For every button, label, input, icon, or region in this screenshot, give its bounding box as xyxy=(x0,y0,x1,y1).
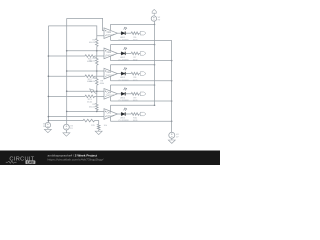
resistor R13 46.4k (input) xyxy=(48,95,94,98)
LED LED5 LTL-2R3KRK xyxy=(118,108,129,122)
svg-text:OA5: OA5 xyxy=(107,112,112,115)
output flag OUT4 xyxy=(140,92,146,96)
wire op-amp output xyxy=(118,113,122,115)
wire ladder segment xyxy=(96,46,98,50)
op-amp OA3 TL072CP xyxy=(104,65,118,81)
wire ladder segment xyxy=(96,65,98,71)
resistor R3 464.1k (ladder) xyxy=(96,57,99,65)
svg-text:LTL-2R3KRK: LTL-2R3KRK xyxy=(118,60,129,62)
svg-text:464k: 464k xyxy=(100,83,104,85)
svg-text:OA4: OA4 xyxy=(107,91,112,94)
svg-text:10k: 10k xyxy=(104,125,107,127)
wire stage2 V+ supply xyxy=(111,44,155,46)
wire stage2 V- to ground rail xyxy=(111,60,172,62)
svg-text:OA2: OA2 xyxy=(107,51,112,54)
svg-text:100Ω: 100Ω xyxy=(133,39,138,41)
wire xyxy=(139,32,140,34)
junction bus A / stage5 xyxy=(48,116,50,118)
voltage source V2 9V xyxy=(151,16,161,22)
svg-text:464.1k: 464.1k xyxy=(89,107,96,109)
resistor R4 464.1k (ladder) xyxy=(96,77,99,85)
resistor R15 10k (ladder termination) xyxy=(97,124,100,130)
wire op-amp output xyxy=(118,73,122,75)
wire xyxy=(65,124,67,133)
LED LED2 LTL-2R3KRK xyxy=(118,47,129,61)
wire ladder segment xyxy=(96,85,98,91)
output flag OUT5 xyxy=(140,112,146,116)
svg-text:LTL-2R3KRK: LTL-2R3KRK xyxy=(118,100,129,102)
wire stage1 upper input from bus B xyxy=(67,18,104,30)
svg-text:LTL-2R3KRK: LTL-2R3KRK xyxy=(118,39,129,41)
wire xyxy=(95,55,105,57)
svg-text:464.1k: 464.1k xyxy=(89,42,96,44)
svg-text:LAB: LAB xyxy=(27,160,34,164)
wire rail A (signal bus left) xyxy=(47,26,49,123)
wire xyxy=(126,113,132,115)
junction bus B / stage2 xyxy=(66,50,68,52)
junction V+ rail stage1 xyxy=(154,24,156,26)
voltage source V1 (left) xyxy=(43,122,51,128)
junction gnd rail stage2 xyxy=(171,60,173,62)
LED LED3 LTL-2R3KRK xyxy=(118,68,129,82)
wire ladder segment xyxy=(96,91,98,103)
wire stage3 upper input xyxy=(67,70,104,72)
junction ladder node 3 xyxy=(96,70,98,72)
resistor R8 100 ohm xyxy=(131,72,139,82)
junction gnd rail stage5 xyxy=(171,120,173,122)
svg-text:100Ω: 100Ω xyxy=(133,60,138,62)
wire termination row with resistor xyxy=(48,119,98,124)
svg-text:OA3: OA3 xyxy=(107,71,112,74)
wire ladder segment xyxy=(96,71,98,77)
svg-text:LTL-2R3KRK: LTL-2R3KRK xyxy=(118,80,129,82)
wire xyxy=(126,93,132,95)
junction V+ rail stage4 xyxy=(154,84,156,86)
output flag OUT2 xyxy=(140,52,146,56)
wire xyxy=(126,52,132,54)
junction V+ rail stage5 xyxy=(154,104,156,106)
junction bus B / stage3 xyxy=(66,70,68,72)
resistor R9 100 ohm xyxy=(131,93,139,103)
wire stage5 V- to ground rail xyxy=(111,120,172,122)
wire xyxy=(139,73,140,75)
junction bus A / stage3 xyxy=(48,75,50,77)
svg-text:OA1: OA1 xyxy=(107,31,112,34)
junction V+ rail stage3 xyxy=(154,64,156,66)
wire stage4 upper input xyxy=(67,90,104,92)
wire stage5 upper input xyxy=(67,110,104,112)
wire stage4 V+ supply xyxy=(111,84,155,86)
junction bus B / stage4 xyxy=(66,90,68,92)
resistor R2 464.1k (ladder) xyxy=(96,39,99,47)
junction ladder node 2 xyxy=(96,50,98,52)
node flag 9V (top) xyxy=(152,9,156,16)
wire op-amp output xyxy=(118,93,122,95)
resistor R7 100 ohm xyxy=(131,52,139,62)
wire xyxy=(95,75,105,77)
wire ground rail right xyxy=(171,40,173,132)
op-amp OA2 TL072CP xyxy=(104,45,118,61)
wire xyxy=(126,73,132,75)
resistor R6 100 ohm xyxy=(131,32,139,42)
wire rail B (signal bus right) xyxy=(66,18,68,124)
wire ladder segment xyxy=(96,51,98,57)
wire stage2 upper input xyxy=(67,50,104,52)
resistor R5 464.1k (ladder) xyxy=(96,103,99,110)
junction bus A / termination xyxy=(48,120,50,122)
junction gnd rail stage4 xyxy=(171,100,173,102)
LED LED1 LTL-2R3KRK xyxy=(118,27,129,41)
LED LED4 LTL-2R3KRK xyxy=(118,88,129,102)
junction bus A / stage2 xyxy=(48,55,50,57)
voltage source V4 (right bottom) xyxy=(169,132,180,138)
wire xyxy=(139,52,140,54)
wire stage5 V+ supply xyxy=(111,104,155,106)
wire ladder segment xyxy=(96,110,98,111)
output flag OUT3 xyxy=(140,72,146,76)
op-amp OA4 TL072CP xyxy=(104,85,118,101)
wire op-amp output xyxy=(118,52,122,54)
op-amp OA1 TL072CP xyxy=(104,24,118,40)
wire op-amp output xyxy=(118,32,122,34)
wire ladder segment xyxy=(96,36,98,39)
wire stage1 V- to ground rail xyxy=(111,39,172,41)
wire xyxy=(47,122,50,129)
wire xyxy=(95,95,105,97)
svg-text:https://circuitlab.com/c4vb73b: https://circuitlab.com/c4vb73bqp2kgy/ xyxy=(48,158,104,162)
wire V+ rail xyxy=(154,21,156,105)
wire xyxy=(153,20,156,22)
ground (ladder termination) xyxy=(95,131,102,134)
resistor R10 100 ohm xyxy=(131,113,139,123)
wire stage3 V+ supply xyxy=(111,64,155,66)
wire xyxy=(139,93,140,95)
op-amp OA5 TL072CP xyxy=(104,105,118,121)
resistor R12 46.4k (input) xyxy=(48,75,94,78)
CircuitLab logo xyxy=(6,157,36,165)
svg-text:ambikapsprasha4 / 2 Week Proje: ambikapsprasha4 / 2 Week Project xyxy=(48,153,98,157)
output flag OUT1 xyxy=(140,31,146,35)
wire ladder top / stage1 lower input xyxy=(48,26,104,36)
wire stage1 V+ supply xyxy=(111,23,155,25)
junction ladder node 5 xyxy=(96,111,98,113)
wire xyxy=(139,113,140,115)
junction bus A / stage4 xyxy=(48,96,50,98)
junction ladder node 4 xyxy=(96,90,98,92)
wire xyxy=(98,130,100,131)
junction V+ rail stage2 xyxy=(154,44,156,46)
ground (right) xyxy=(168,140,175,143)
bottom watermark bar xyxy=(0,151,220,166)
wire stage3 V- to ground rail xyxy=(111,80,172,82)
svg-text:100Ω: 100Ω xyxy=(133,80,138,82)
ground (under V1) xyxy=(44,129,51,132)
svg-text:100Ω: 100Ω xyxy=(133,120,138,122)
wire stage4 V- to ground rail xyxy=(111,100,172,102)
junction gnd rail stage3 xyxy=(171,80,173,82)
node flag REF xyxy=(89,88,97,96)
resistor R11 46.4k (input) xyxy=(48,55,94,58)
svg-text:LTL-2R3KRK: LTL-2R3KRK xyxy=(118,120,129,122)
wire stage5 lower input xyxy=(48,116,104,118)
ground (under V3) xyxy=(63,133,70,136)
wire xyxy=(171,132,173,140)
svg-text:100Ω: 100Ω xyxy=(133,100,138,102)
junction bus B / stage5 xyxy=(66,111,68,113)
voltage source V3 (left 2) xyxy=(64,124,74,130)
wire xyxy=(126,32,132,34)
